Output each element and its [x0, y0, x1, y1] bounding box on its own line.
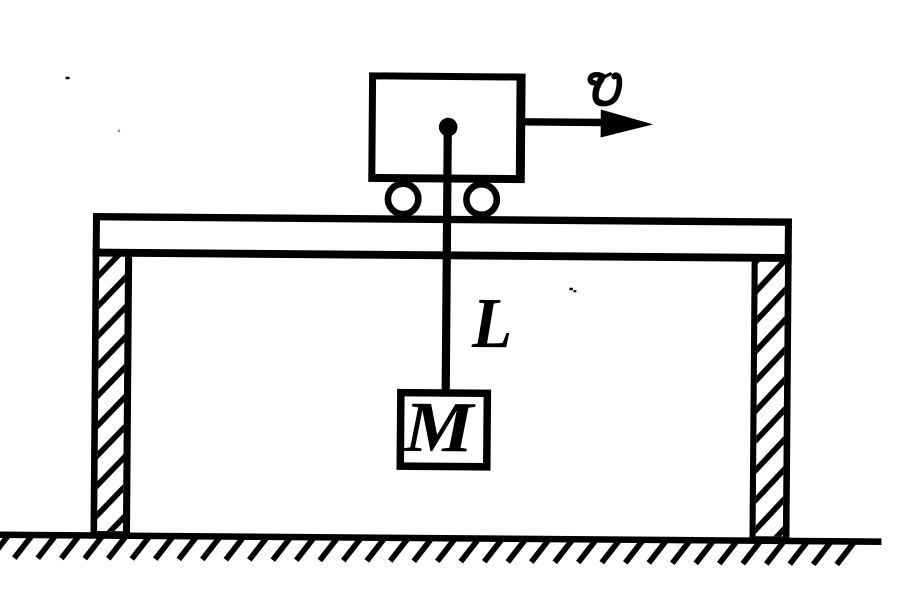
mass M box (outer): [396, 389, 491, 471]
velocity arrow head: [601, 109, 654, 137]
svg-text:M: M: [403, 387, 477, 468]
left table leg inner white: [97, 254, 125, 531]
right table leg inner white: [756, 259, 785, 536]
label v: [590, 74, 620, 104]
left leg hatching: [92, 212, 131, 550]
string (cord from cart pin down to mass M): [442, 127, 452, 392]
speck (scan artifact) top-left: [66, 77, 70, 80]
ground line: [0, 531, 881, 545]
left table leg (outer): [90, 248, 132, 536]
table top (outer): [93, 213, 792, 262]
cart wheel left: [388, 184, 419, 215]
ground hatching: [0, 536, 853, 564]
cart wheel right: [466, 184, 497, 215]
mass M box inner white: [404, 396, 484, 463]
svg-text:L: L: [471, 283, 513, 363]
cart body (outer): [368, 72, 525, 183]
speck (scan artifact) faint, left area: [118, 130, 121, 133]
speck (scan artifact) near L: [569, 288, 573, 291]
table top inner white: [100, 220, 785, 254]
velocity arrow shaft: [520, 118, 606, 126]
right table leg (outer): [749, 253, 791, 541]
cart body inner white: [375, 79, 516, 175]
right leg hatching: [751, 226, 789, 564]
pin dot on cart: [439, 118, 458, 137]
